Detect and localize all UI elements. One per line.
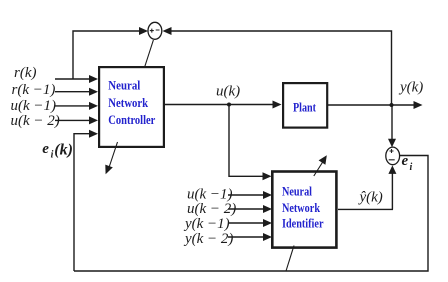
op block controller box <box>99 67 164 147</box>
node y(k) junction <box>390 103 394 107</box>
op block plant box <box>283 83 327 128</box>
svg-text:Identifier: Identifier <box>282 217 324 231</box>
svg-text:i: i <box>51 150 54 161</box>
svg-text:r(k): r(k) <box>14 65 37 81</box>
wire u(k-2) input to identifier <box>228 205 272 213</box>
wire y feedback to top summer <box>163 27 392 105</box>
label ei(k) <box>42 141 73 160</box>
op block identifier box <box>272 172 336 248</box>
svg-text:Neural: Neural <box>108 79 140 93</box>
wire training arrow above identifier <box>314 155 327 176</box>
wire yhat up into S2 <box>388 165 396 209</box>
svg-text:r(k −1): r(k −1) <box>12 82 56 98</box>
svg-text:u(k − 2): u(k − 2) <box>187 201 236 217</box>
wire training line below identifier <box>286 246 294 272</box>
svg-text:y(k): y(k) <box>398 80 423 96</box>
wire u(k-1) input <box>55 102 98 110</box>
svg-text:Plant: Plant <box>293 101 317 115</box>
node u(k) junction <box>227 103 231 107</box>
label Neural Network Controller <box>108 79 155 127</box>
svg-text:Controller: Controller <box>108 113 155 127</box>
wire u(k-2) input <box>55 116 98 124</box>
svg-text:y(k −1): y(k −1) <box>183 216 230 232</box>
svg-text:Network: Network <box>282 201 320 215</box>
label ei <box>402 153 413 173</box>
wire y(k) down to summer S2 <box>388 105 396 147</box>
wire S2 output to bottom feedback <box>74 156 428 272</box>
summing junction S1 <box>148 22 162 39</box>
wire u(k-1) input to identifier <box>228 191 272 199</box>
svg-text:y(k − 2): y(k − 2) <box>183 231 233 247</box>
svg-text:u(k): u(k) <box>216 83 240 99</box>
wire y(k) output <box>328 101 423 109</box>
svg-text:u(k − 2): u(k − 2) <box>11 113 60 129</box>
wire r(k) input <box>55 75 98 83</box>
svg-text:i: i <box>410 162 413 173</box>
wire r(k) branch to top summer <box>73 27 148 79</box>
wire u(k) controller output to plant <box>165 101 282 109</box>
wire training arrow below controller <box>105 142 117 174</box>
wire y(k-1) input to identifier <box>228 219 272 227</box>
svg-text:Network: Network <box>108 96 148 110</box>
wire y(k-2) input to identifier <box>228 233 272 241</box>
svg-text:(k): (k) <box>54 142 73 159</box>
svg-text:e: e <box>42 141 49 157</box>
wire S1 to controller (training line) <box>143 40 154 73</box>
svg-text:Neural: Neural <box>282 185 312 199</box>
label Neural Network Identifier <box>282 185 324 231</box>
summing junction S2 <box>386 147 400 165</box>
svg-text:u(k −1): u(k −1) <box>11 98 57 114</box>
svg-text:ŷ(k): ŷ(k) <box>358 189 383 205</box>
wire r(k-1) input <box>55 88 98 96</box>
wire u(k) branch to identifier <box>229 105 272 181</box>
wire yhat(k) from identifier <box>338 208 393 210</box>
wire error feedback into controller <box>74 130 98 271</box>
